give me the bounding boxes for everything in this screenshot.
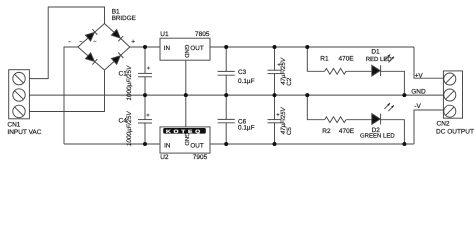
svg-text:GREEN LED: GREEN LED	[360, 133, 395, 140]
wire positive rail bridge plus corner to U1 IN	[130, 46, 160, 48]
wire positive rail U1 OUT to +V corner	[210, 46, 414, 48]
resistor R1	[325, 68, 346, 74]
capacitor C5 leads	[274, 95, 276, 120]
junction dots ground rail	[143, 93, 147, 97]
wire negative rail U2 OUT to -V corner	[210, 143, 414, 145]
connector CN2	[443, 71, 462, 118]
svg-text:IN: IN	[164, 45, 171, 52]
svg-text:GND: GND	[183, 132, 190, 145]
KOTEQ logo inside U2	[163, 128, 206, 134]
wire AC line CN1 pin1 to bridge top corner	[29, 7, 104, 79]
wire AC line CN1 pin3 to bridge bottom corner	[29, 70, 104, 111]
capacitor C1 leads	[144, 47, 146, 73]
svg-text:IN: IN	[164, 143, 171, 150]
svg-text:+V: +V	[415, 72, 424, 79]
svg-text:RED LED: RED LED	[366, 56, 393, 63]
resistor R2	[325, 117, 346, 123]
capacitor C2 plates	[268, 69, 282, 71]
svg-text:OUT: OUT	[190, 143, 203, 150]
wire R2 to D2	[346, 119, 372, 121]
svg-text:GND: GND	[411, 89, 426, 96]
svg-text:1000µF/25V: 1000µF/25V	[126, 111, 133, 147]
diode B1 top-left (anode at minus corner)	[86, 29, 98, 41]
svg-text:D1: D1	[371, 49, 380, 56]
regulator U1 7805 box	[160, 38, 210, 60]
svg-text:C5: C5	[286, 127, 293, 135]
wire GND rail CN1 pin2 to CN2 pin2	[29, 94, 443, 96]
diode B1 bottom-right (cathode at plus corner)	[111, 53, 123, 65]
wire -V rise to CN2 pin3	[414, 110, 443, 144]
svg-text:GND: GND	[183, 45, 190, 58]
wire +V drop to CN2 pin1	[414, 47, 443, 78]
svg-text:470E: 470E	[339, 56, 355, 63]
svg-text:-: -	[68, 39, 70, 46]
svg-text:DC OUTPUT: DC OUTPUT	[436, 129, 474, 136]
wire U2 GND pin up to ground rail	[185, 95, 187, 127]
svg-text:+: +	[131, 39, 135, 46]
svg-text:BRIDGE: BRIDGE	[112, 15, 136, 22]
capacitor C4 leads	[144, 95, 146, 120]
svg-text:~: ~	[93, 39, 96, 45]
svg-text:C3: C3	[238, 69, 247, 76]
wire negative rail to U2 IN	[64, 143, 160, 145]
junction dots negative rail	[143, 142, 147, 146]
capacitor C6 leads	[225, 95, 227, 119]
wire bridge minus corner to negative rail	[64, 47, 78, 144]
svg-text:+: +	[146, 113, 150, 119]
svg-text:7905: 7905	[193, 154, 208, 161]
capacitor C1 plates	[138, 72, 152, 74]
capacitor C3 leads	[225, 47, 227, 71]
wire R2 branch from ground rail	[307, 95, 324, 120]
diode B1 bottom-left (anode at minus corner)	[86, 53, 98, 65]
svg-text:0.1µF: 0.1µF	[238, 78, 255, 85]
wire U1 GND pin down to ground rail	[185, 60, 187, 95]
wire D1 to ground rail	[381, 71, 405, 95]
svg-text:R2: R2	[322, 128, 331, 135]
wire R1 branch from positive rail	[307, 47, 324, 71]
svg-text:+: +	[147, 66, 151, 72]
svg-text:U2: U2	[160, 154, 169, 161]
svg-text:0.1µF: 0.1µF	[238, 125, 255, 132]
capacitor C3 plates	[218, 70, 235, 72]
diode B1 top-right (cathode at plus corner)	[111, 30, 123, 42]
wire D2 to negative rail	[381, 120, 405, 144]
svg-text:OUT: OUT	[190, 45, 203, 52]
svg-text:INPUT VAC: INPUT VAC	[7, 129, 41, 136]
circuit schematic: dual rail power supply with bridge B1, regulators U1 7805 / U2 7905	[0, 0, 474, 164]
svg-text:7805: 7805	[195, 31, 210, 38]
svg-text:CN2: CN2	[437, 121, 450, 128]
svg-text:~: ~	[79, 39, 82, 45]
svg-text:CN1: CN1	[7, 122, 20, 129]
capacitor C5 plates	[268, 119, 282, 121]
capacitor C6 plates	[218, 118, 235, 120]
svg-text:C2: C2	[286, 77, 293, 85]
svg-text:R1: R1	[320, 56, 329, 63]
capacitor C2 leads	[274, 47, 276, 70]
connector CN1	[9, 70, 30, 119]
LED D1	[372, 54, 394, 76]
svg-text:1000µF/25V: 1000µF/25V	[126, 65, 133, 101]
svg-text:-V: -V	[414, 103, 421, 110]
capacitor C4 plates	[138, 119, 152, 121]
LED D2	[372, 103, 394, 124]
svg-text:U1: U1	[160, 31, 169, 38]
junction dots positive rail	[143, 45, 147, 49]
svg-text:470E: 470E	[339, 128, 355, 135]
regulator U2 7905 box	[160, 127, 210, 153]
wire R1 to D1	[346, 70, 372, 72]
bridge rectifier B1 diamond outline	[78, 24, 130, 71]
